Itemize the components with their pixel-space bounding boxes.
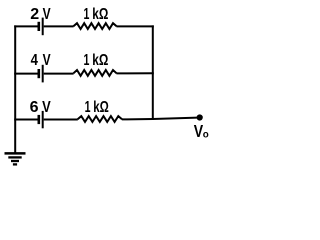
wire: R1 to right bus xyxy=(116,25,153,27)
svg-text:kΩ: kΩ xyxy=(92,52,108,69)
label: 6 V xyxy=(30,99,51,116)
svg-text:4: 4 xyxy=(31,52,38,69)
wire: R2 to right bus junction xyxy=(116,72,153,74)
svg-text:1: 1 xyxy=(84,52,90,69)
resistor R2 1kOhm xyxy=(73,70,116,76)
svg-text:kΩ: kΩ xyxy=(92,6,108,23)
wire: left bus to V1 xyxy=(14,25,37,27)
wire: R3 through right bus junction to output node xyxy=(122,118,198,120)
label: 1 kOhm for R1 xyxy=(84,6,109,23)
wire: right bus from top branch to bottom branch xyxy=(152,25,154,120)
wire: left bus from top branch down to ground xyxy=(14,25,16,152)
svg-text:1: 1 xyxy=(84,6,90,23)
resistor R1 1kOhm xyxy=(73,23,116,29)
svg-text:V: V xyxy=(43,6,51,23)
voltage source V1 2V battery xyxy=(39,18,43,36)
voltage source V2 4V battery xyxy=(39,65,43,83)
label: 4 V xyxy=(31,52,51,69)
svg-text:kΩ: kΩ xyxy=(93,99,109,116)
svg-text:6: 6 xyxy=(30,99,39,116)
wire: left bus to V3 xyxy=(14,119,37,121)
svg-text:o: o xyxy=(203,129,209,141)
svg-text:V: V xyxy=(43,52,51,69)
svg-text:1: 1 xyxy=(85,99,91,116)
label: 1 kOhm for R2 xyxy=(84,52,109,69)
svg-text:2: 2 xyxy=(30,6,39,23)
wire: left bus to V2 xyxy=(14,73,37,75)
resistor R3 1kOhm xyxy=(78,116,122,122)
svg-text:V: V xyxy=(42,99,51,116)
wire: V2 to R2 xyxy=(44,73,74,75)
label: 1 kOhm for R3 xyxy=(85,99,109,116)
node Vo terminal dot xyxy=(197,114,203,120)
label: 2 V xyxy=(30,6,51,23)
voltage source V3 6V battery xyxy=(39,111,43,128)
label: Vo output voltage xyxy=(194,121,209,141)
ground xyxy=(5,153,26,164)
wire: V3 to R3 xyxy=(44,119,78,121)
wire: V1 to R1 xyxy=(44,25,74,27)
